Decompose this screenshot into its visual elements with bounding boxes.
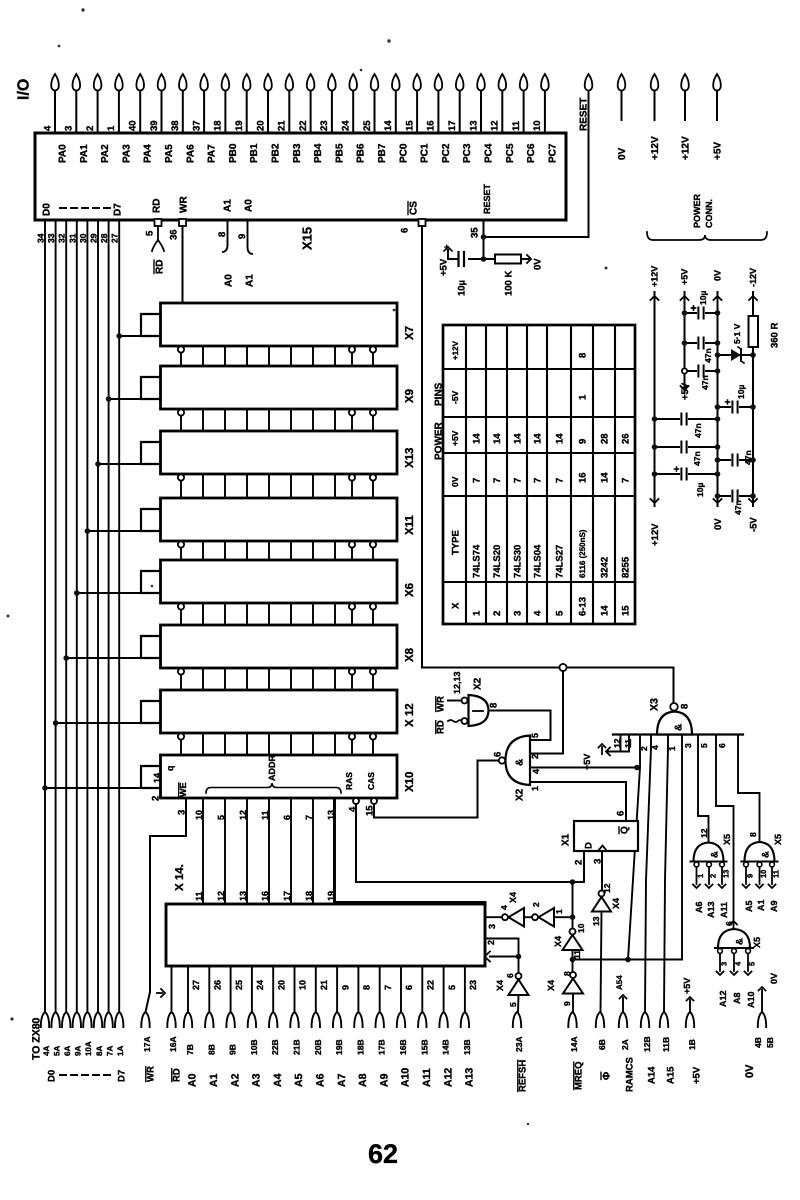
capacitor 47n (C-D) [715,450,756,467]
svg-text:A13: A13 [464,1068,476,1087]
svg-text:+5V: +5V [582,754,592,770]
svg-text:6: 6 [615,811,626,816]
svg-text:5: 5 [144,230,155,236]
svg-text:+12V: +12V [451,340,460,360]
svg-text:10µ: 10µ [736,385,746,399]
X15 data bus pins 34-27 [35,233,119,243]
svg-text:PB4: PB4 [313,143,324,163]
svg-text:&: & [674,724,685,731]
svg-text:5B: 5B [765,1037,775,1048]
bus stubs below X13 [178,474,376,498]
svg-text:&: & [760,851,771,858]
svg-text:2: 2 [486,940,496,945]
svg-text:A14: A14 [646,1066,657,1084]
svg-text:5: 5 [216,815,226,820]
capacitor 10u (A-C) [652,467,721,497]
svg-text:X13: X13 [404,448,416,468]
power conn rails [650,266,760,546]
X3 input 2 wire (to RAMCS junction) [625,735,649,963]
svg-text:12: 12 [216,891,226,901]
capacitor 47n (B-C) [682,336,721,363]
svg-text:+5V: +5V [450,430,460,446]
svg-text:11B: 11B [661,1037,671,1052]
svg-text:RD: RD [435,720,446,734]
svg-text:1: 1 [471,610,482,616]
svg-text:X 12: X 12 [404,703,416,727]
svg-text:TYPE: TYPE [450,530,461,555]
svg-text:37: 37 [191,120,202,131]
svg-text:PC2: PC2 [441,143,452,163]
svg-text:A8: A8 [732,992,742,1004]
capacitor 10u (reset) [438,242,467,296]
X10 RAS pin 4 [347,798,584,882]
svg-text:A11: A11 [421,1068,433,1087]
svg-text:RESET: RESET [482,183,492,214]
svg-text:10µ: 10µ [695,483,705,497]
svg-text:9: 9 [340,985,350,990]
svg-text:+: + [444,242,449,252]
svg-text:q: q [165,766,175,772]
svg-text:4: 4 [42,125,53,131]
svg-text:0V: 0V [744,1064,756,1078]
svg-text:14: 14 [152,773,162,783]
svg-text:35: 35 [469,227,480,238]
svg-text:POWER: POWER [434,421,445,460]
svg-text:12: 12 [699,828,709,838]
svg-text:12: 12 [490,120,501,131]
X10 CAS pin 15 [364,761,498,818]
svg-text:6116 (250nS): 6116 (250nS) [578,529,587,578]
data bus D0-D7 vertical lines [45,220,119,1012]
svg-text:X3: X3 [649,698,661,711]
svg-text:PA3: PA3 [121,144,132,163]
svg-text:PA0: PA0 [58,144,69,163]
svg-text:0V: 0V [769,973,779,984]
svg-text:11: 11 [772,870,781,878]
svg-text:A1: A1 [756,899,766,911]
svg-text:11: 11 [194,891,204,901]
svg-text:11: 11 [260,810,270,820]
svg-text:+5V: +5V [713,142,724,160]
svg-text:PINS: PINS [434,382,445,406]
svg-text:PA4: PA4 [143,144,154,163]
svg-text:20: 20 [276,980,286,990]
RAM chip X7 (4116) [141,303,416,346]
svg-text:CS: CS [409,201,420,215]
svg-text:16A: 16A [168,1036,178,1052]
connector 0V 4B 5B [744,973,779,1078]
svg-text:360 R: 360 R [769,323,780,348]
svg-text:8: 8 [577,353,588,358]
svg-text:Q: Q [620,826,631,834]
svg-text:A4: A4 [272,1073,284,1087]
svg-text:A9: A9 [378,1073,390,1087]
X15 pin 35 RESET + RC network [469,220,495,262]
svg-text:17: 17 [447,120,458,131]
svg-text:26: 26 [620,433,631,444]
svg-text:3242: 3242 [599,557,610,578]
X14 bottom pins + wires to connector [157,966,478,1012]
capacitor 10u (B-C) [682,291,721,320]
svg-text:0V: 0V [450,476,460,487]
svg-text:47n: 47n [703,348,713,363]
svg-text:74LS30: 74LS30 [512,545,523,578]
svg-text:8B: 8B [206,1044,216,1055]
svg-text:15: 15 [404,120,415,131]
X15 pin 36 WR stub / wire to X7 [168,219,186,303]
svg-text:A9: A9 [769,900,779,912]
svg-text:A1: A1 [245,274,256,287]
wire: X2b in2 from CS node [530,671,563,754]
svg-text:2: 2 [85,126,96,131]
svg-text:A11: A11 [719,902,729,918]
svg-text:21B: 21B [291,1039,301,1055]
svg-text:WR: WR [145,1066,156,1082]
svg-text:X5: X5 [752,937,762,948]
svg-text:A5: A5 [744,900,754,912]
svg-text:9B: 9B [228,1044,238,1055]
svg-text:47n: 47n [700,375,710,390]
svg-text:25: 25 [362,120,373,131]
wire: data line to X9 tab [106,396,141,402]
svg-text:X5: X5 [722,834,732,845]
svg-text:0V: 0V [532,258,543,270]
svg-text:74LS20: 74LS20 [492,545,503,578]
svg-text:4: 4 [734,961,743,966]
flip-flop X1 (74LS74) [561,811,639,865]
X10 pin labels (14,2,WE,3, ADDR, RAS, CAS) [150,755,376,815]
RAM chip X13 (4116) [141,431,416,474]
svg-text:POWER: POWER [692,193,702,228]
svg-text:A0: A0 [244,199,255,212]
wire: X2b in4 to X3 in2 / A14 [530,765,640,771]
svg-text:8255: 8255 [620,556,631,578]
svg-text:14B: 14B [441,1039,451,1055]
svg-text:21: 21 [319,980,329,990]
svg-text:12B: 12B [642,1036,652,1052]
X15 pin 5 RD stub [144,219,165,274]
svg-text:2: 2 [492,611,503,616]
svg-text:A54: A54 [615,975,624,990]
svg-text:14: 14 [599,472,610,483]
svg-text:D: D [583,842,594,849]
svg-text:3: 3 [720,962,729,966]
X3 input 7 wire (from X5b) [738,735,760,842]
svg-text:6: 6 [717,743,727,748]
svg-text:X1: X1 [561,833,572,846]
svg-text:13: 13 [238,891,248,901]
svg-text:12: 12 [602,883,612,893]
bus stubs below X8 [178,668,376,690]
svg-text:PC5: PC5 [505,143,516,163]
svg-text:4B: 4B [753,1037,763,1048]
POWER CONN brace + label [647,193,767,240]
nand gate X2b (74LS20) pins 1,2,4,5 -> 6 [492,733,541,801]
nand gate X2a (74LS20) pins 12,13 -> 8 [435,671,499,734]
svg-text:13B: 13B [462,1039,472,1055]
svg-text:11: 11 [623,739,633,748]
svg-text:+12V: +12V [650,136,661,160]
svg-text:PC3: PC3 [462,143,473,163]
svg-text:8: 8 [679,704,690,709]
svg-text:A5: A5 [293,1073,305,1087]
RAM chip X11 (4116) [141,498,416,541]
svg-text:6: 6 [505,973,515,978]
svg-text:1: 1 [696,874,705,878]
svg-text:D0: D0 [42,203,53,216]
svg-text:14: 14 [471,433,482,444]
svg-text:5: 5 [508,1002,518,1007]
svg-text:RD: RD [171,1068,182,1082]
svg-text:1A: 1A [116,1046,125,1056]
svg-text:14: 14 [532,433,543,444]
RAM chip X6 (4116) [141,560,416,603]
svg-text:100 K: 100 K [503,271,514,296]
svg-text:5: 5 [699,743,709,748]
svg-text:PB5: PB5 [334,143,345,163]
capacitor 47n (B-C) 2 [682,364,721,390]
wire: data line to X7 tab [116,333,141,339]
svg-text:7: 7 [620,478,631,483]
svg-text:A10: A10 [746,991,756,1008]
svg-text:27: 27 [110,233,120,243]
svg-text:D0: D0 [46,1070,57,1082]
svg-text:PA6: PA6 [185,144,196,163]
svg-text:17: 17 [282,891,292,901]
svg-text:13: 13 [722,870,731,878]
svg-text:X15: X15 [300,227,315,250]
svg-text:A0: A0 [224,274,235,287]
svg-text:6: 6 [399,228,410,233]
svg-text:X4: X4 [508,892,518,903]
svg-text:PC0: PC0 [398,143,409,163]
svg-text:X5: X5 [773,834,783,845]
svg-text:7: 7 [492,478,503,483]
connector address pins A0-A13 [184,1012,476,1087]
svg-text:16B: 16B [398,1039,408,1055]
resistor 360R [749,316,781,348]
svg-text:X6: X6 [404,583,416,597]
svg-text:A12: A12 [442,1068,454,1087]
capacitor 47n (C-D) 2 [715,489,756,515]
svg-text:17B: 17B [377,1039,387,1055]
X10 WE pin 3 wire to connector WR [146,798,187,1012]
svg-text:16: 16 [426,120,437,131]
svg-text:PB0: PB0 [228,143,239,163]
svg-text:+12V: +12V [650,266,660,287]
svg-text:34: 34 [35,233,45,243]
svg-text:1B: 1B [687,1039,697,1050]
svg-text:3: 3 [64,126,75,131]
svg-text:62: 62 [368,1139,398,1169]
svg-text:&: & [734,938,745,945]
svg-text:CAS: CAS [366,772,376,790]
inverter X4d (REFSH) [485,939,529,1013]
svg-text:X4: X4 [495,980,505,991]
svg-text:14: 14 [383,120,394,131]
svg-text:10: 10 [759,870,768,878]
svg-text:18: 18 [304,891,314,901]
svg-text:A15: A15 [665,1066,676,1084]
svg-text:24: 24 [341,120,352,131]
wire: data line to X6 tab [74,590,141,596]
svg-text:0V: 0V [617,147,628,160]
svg-text:10B: 10B [249,1039,259,1055]
capacitor 47n (A-C) [652,412,721,438]
op IC X15 (8255) [35,133,566,250]
svg-text:PB6: PB6 [356,143,367,163]
X3 inputs 12,11 tied to +5V [582,735,633,771]
svg-text:PA5: PA5 [164,144,175,163]
svg-text:3: 3 [683,743,693,748]
svg-text:8: 8 [748,832,758,837]
svg-text:21: 21 [277,120,288,131]
svg-text:4A: 4A [42,1046,51,1056]
RAM chip X10 (4116) [141,755,416,798]
svg-text:+12V: +12V [681,136,692,160]
svg-text:A6: A6 [314,1073,326,1087]
wire: X1 pin2 / RAS [570,851,584,885]
svg-text:WR: WR [435,696,446,712]
svg-text:19: 19 [234,120,245,131]
X3 input 1 wire (to A15) [664,735,677,1013]
svg-text:38: 38 [170,120,181,131]
svg-text:MREQ: MREQ [573,1062,584,1091]
X3 input 6 wire (from X5c) [716,735,734,929]
svg-text:WR: WR [179,196,190,213]
svg-text:1: 1 [577,394,588,400]
svg-text:CONN.: CONN. [704,199,714,228]
svg-text:22: 22 [298,120,309,131]
svg-text:5: 5 [447,985,457,990]
svg-text:1: 1 [554,909,564,914]
X10 address pins [194,798,336,904]
bus stubs below X7 [178,346,376,366]
svg-text:30: 30 [78,233,88,243]
svg-text:7: 7 [532,478,543,483]
svg-text:X: X [450,602,461,609]
svg-text:7: 7 [512,478,523,483]
svg-text:5: 5 [748,962,757,966]
svg-text:+5V: +5V [691,1066,702,1084]
connector RAMCS 2A [615,975,636,1092]
svg-text:74LS27: 74LS27 [554,545,565,578]
wire: X10 pin1 to X14 [334,798,486,904]
svg-text:10: 10 [532,120,543,131]
svg-text:9: 9 [746,874,755,878]
svg-text:28: 28 [599,433,610,444]
nand gate X3 (74LS30) 8-input [613,698,743,735]
svg-text:33: 33 [46,233,56,243]
svg-text:2: 2 [639,746,649,751]
wire: X1 pin3 clock from X4e [601,851,603,890]
svg-text:8: 8 [488,703,499,708]
inverter X4a (to X14 pin3) [487,892,524,929]
svg-text:0V: 0V [713,270,723,281]
connector A15 11B [660,1012,677,1084]
RAM chip X12 (4116) [141,690,416,733]
svg-text:9: 9 [577,439,588,444]
X3 input 5 wire (from X5a) [698,735,709,843]
svg-text:X8: X8 [404,647,416,662]
svg-text:28: 28 [99,233,109,243]
svg-text:23: 23 [319,120,330,131]
svg-text:PA7: PA7 [207,144,218,163]
svg-text:18B: 18B [355,1039,365,1055]
svg-text:X4: X4 [546,980,556,991]
X15 pins 8,9 A0 A1 stubs [217,220,256,287]
capacitor 10u (C-D) [715,385,756,414]
svg-text:RD: RD [152,199,163,213]
svg-text:-5V: -5V [450,390,460,404]
svg-text:PC1: PC1 [420,143,431,163]
svg-text:36: 36 [168,229,179,240]
connector +5V 1B [682,978,702,1084]
svg-text:39: 39 [149,120,160,131]
svg-text:X2: X2 [473,677,484,690]
svg-text:A10: A10 [400,1068,412,1087]
svg-text:47n: 47n [692,451,702,466]
RAM chip X8 (4116) [141,625,416,668]
svg-text:A12: A12 [718,990,728,1007]
svg-text:8A: 8A [95,1046,104,1056]
svg-text:5A: 5A [52,1046,61,1056]
X14 top pins 11,12,13,16,17,18,19 [194,891,336,901]
bus stubs below X11 [178,541,376,560]
svg-text:A3: A3 [251,1073,263,1087]
capacitor 47n (A-C) 2 [652,440,721,466]
svg-text:+5V: +5V [438,258,449,276]
svg-text:10µ: 10µ [456,280,467,296]
svg-text:10: 10 [576,923,586,933]
svg-text:A7: A7 [336,1073,348,1087]
svg-text:7: 7 [383,985,393,990]
svg-text:8: 8 [362,985,372,990]
wire: data line to X13 tab [95,461,141,467]
wire: data line to X12 tab [53,720,141,726]
junction node on CS wire [559,664,566,671]
svg-text:&: & [709,851,720,858]
svg-text:10µ: 10µ [698,291,708,305]
svg-text:8: 8 [217,232,228,237]
svg-text:X7: X7 [404,326,416,340]
svg-text:7B: 7B [185,1044,195,1055]
wire: data line to X8 tab [63,655,141,661]
svg-text:25: 25 [234,980,244,990]
svg-text:31: 31 [67,233,77,243]
zener diode 5.1V [715,323,756,363]
svg-text:+5V: +5V [680,382,691,400]
X15 pin 6 CS wire [399,219,673,703]
X14 right-edge labels ROW / pin2 [464,903,496,946]
svg-text:14A: 14A [569,1036,579,1052]
svg-text:11: 11 [511,120,522,131]
resistor 100K (reset) [495,255,543,297]
inverter X4h (MREQ lower) [546,950,583,1012]
svg-text:A8: A8 [357,1073,369,1087]
inverter X4e (phi to X1 clock) [591,883,621,1012]
wire: data line to X11 tab [85,528,141,534]
svg-text:PB1: PB1 [249,143,260,163]
svg-text:14: 14 [492,433,503,444]
svg-text:2: 2 [531,902,541,907]
svg-text:6A: 6A [63,1046,72,1056]
svg-text:9A: 9A [74,1046,83,1056]
svg-text:19B: 19B [334,1039,344,1055]
svg-text:PA1: PA1 [79,144,90,163]
svg-text:&: & [515,759,526,766]
wire: X2b in1 from X1 Q [530,782,626,821]
